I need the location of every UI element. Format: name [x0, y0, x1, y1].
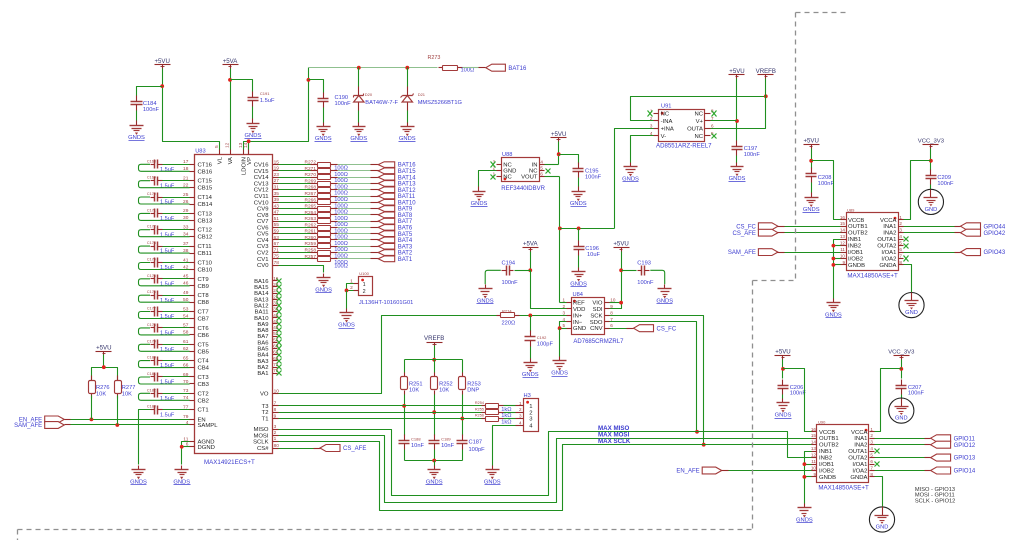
svg-text:R276: R276 — [96, 385, 110, 391]
svg-text:GND: GND — [905, 310, 918, 316]
svg-text:CV11: CV11 — [254, 194, 268, 200]
svg-text:+5VA: +5VA — [523, 241, 539, 248]
svg-text:R267: R267 — [305, 191, 317, 197]
svg-text:BA3: BA3 — [257, 359, 269, 365]
svg-text:13: 13 — [238, 142, 244, 148]
svg-text:-INA: -INA — [661, 119, 673, 125]
svg-text:3: 3 — [650, 123, 653, 128]
svg-text:R262: R262 — [305, 222, 317, 228]
svg-text:78: 78 — [274, 260, 280, 266]
svg-text:MAX14921ECS+T: MAX14921ECS+T — [204, 459, 255, 466]
svg-text:100nF: 100nF — [744, 152, 761, 158]
svg-text:BA1: BA1 — [257, 371, 268, 377]
svg-text:CT1: CT1 — [198, 408, 209, 414]
svg-text:1kΩ: 1kΩ — [501, 407, 511, 413]
svg-text:CT14: CT14 — [198, 195, 213, 201]
svg-text:SDI: SDI — [593, 307, 603, 313]
svg-text:R255: R255 — [475, 407, 484, 411]
svg-text:+5VU: +5VU — [775, 349, 790, 356]
svg-text:T2: T2 — [262, 410, 269, 416]
svg-text:67: 67 — [274, 241, 280, 247]
svg-text:15: 15 — [811, 433, 817, 438]
svg-text:4: 4 — [899, 234, 902, 239]
svg-text:1.5uF: 1.5uF — [160, 232, 175, 238]
svg-text:CB11: CB11 — [198, 251, 212, 257]
svg-text:CT8: CT8 — [198, 293, 210, 299]
svg-text:10K: 10K — [409, 388, 419, 394]
svg-text:INB2: INB2 — [848, 244, 861, 250]
svg-text:GND: GND — [573, 326, 586, 332]
svg-text:AD7685CRMZRL7: AD7685CRMZRL7 — [573, 339, 624, 345]
svg-text:GNDB: GNDB — [819, 475, 836, 481]
svg-text:8: 8 — [610, 310, 613, 315]
svg-text:IN+: IN+ — [573, 313, 583, 319]
svg-text:BAT6: BAT6 — [398, 226, 413, 232]
svg-text:BAT7: BAT7 — [398, 219, 413, 225]
svg-text:BA8: BA8 — [257, 328, 269, 334]
svg-text:+5VU: +5VU — [96, 345, 111, 352]
svg-text:BA7: BA7 — [257, 334, 268, 340]
svg-text:3: 3 — [562, 310, 565, 315]
svg-text:CB14: CB14 — [198, 202, 213, 208]
svg-text:U83: U83 — [195, 149, 205, 155]
svg-text:VCCA: VCCA — [880, 218, 896, 224]
svg-text:CS#: CS# — [257, 446, 269, 452]
svg-text:1: 1 — [870, 427, 873, 432]
svg-text:I/OB2: I/OB2 — [819, 469, 834, 475]
svg-text:1.5uF: 1.5uF — [160, 183, 175, 189]
svg-text:1.5uF: 1.5uF — [160, 216, 175, 222]
svg-text:7: 7 — [274, 401, 277, 407]
svg-text:BAT4: BAT4 — [398, 238, 413, 244]
svg-text:MAX14850ASE+T: MAX14850ASE+T — [818, 484, 869, 491]
svg-text:GPIO14: GPIO14 — [954, 469, 976, 475]
svg-text:GNDB: GNDB — [848, 263, 865, 269]
svg-text:51: 51 — [274, 216, 280, 222]
svg-text:R252: R252 — [439, 381, 453, 387]
svg-text:U88: U88 — [502, 152, 512, 158]
svg-text:1: 1 — [529, 404, 532, 410]
svg-text:23: 23 — [274, 172, 280, 178]
svg-text:CV5: CV5 — [257, 232, 269, 238]
svg-text:BAT15: BAT15 — [398, 169, 417, 175]
svg-text:1.5uF: 1.5uF — [260, 98, 275, 104]
svg-text:BAT16: BAT16 — [508, 66, 527, 72]
svg-text:CT12: CT12 — [198, 228, 212, 234]
svg-text:GNDA: GNDA — [879, 263, 896, 269]
svg-text:10K: 10K — [96, 391, 106, 397]
svg-text:BAT11: BAT11 — [398, 194, 416, 200]
svg-text:C187: C187 — [469, 439, 483, 445]
svg-text:VCCA: VCCA — [851, 430, 867, 436]
svg-text:V+: V+ — [696, 119, 704, 125]
svg-text:R270: R270 — [305, 172, 317, 178]
svg-text:OUTB1: OUTB1 — [848, 224, 868, 230]
svg-text:100nF: 100nF — [585, 175, 602, 181]
svg-text:C172: C172 — [147, 225, 156, 229]
svg-text:R254: R254 — [475, 401, 484, 405]
svg-text:GPIO12: GPIO12 — [954, 443, 976, 449]
svg-text:5: 5 — [540, 166, 543, 171]
svg-text:100nF: 100nF — [335, 101, 352, 107]
svg-text:GPIO43: GPIO43 — [984, 250, 1006, 256]
svg-text:VREFB: VREFB — [424, 335, 444, 342]
svg-text:CT6: CT6 — [198, 326, 210, 332]
svg-text:GND: GND — [876, 524, 889, 530]
svg-text:13: 13 — [811, 446, 817, 451]
svg-text:100nF: 100nF — [637, 280, 654, 286]
svg-text:4: 4 — [870, 446, 873, 451]
svg-text:BAT14: BAT14 — [398, 175, 417, 181]
svg-text:T3: T3 — [262, 404, 270, 410]
svg-text:MISO: MISO — [253, 427, 268, 433]
svg-text:19: 19 — [274, 166, 280, 172]
svg-text:5: 5 — [870, 453, 873, 458]
svg-text:1: 1 — [519, 401, 522, 406]
svg-text:U89: U89 — [847, 208, 855, 213]
svg-text:12: 12 — [840, 241, 846, 246]
svg-text:I/OA1: I/OA1 — [852, 462, 867, 468]
svg-text:R266: R266 — [305, 197, 317, 203]
svg-text:10: 10 — [840, 254, 846, 259]
svg-text:VL: VL — [218, 156, 224, 164]
svg-text:BA16: BA16 — [254, 279, 269, 285]
svg-text:CV6: CV6 — [257, 225, 269, 231]
svg-text:EN_AFE: EN_AFE — [676, 469, 699, 475]
svg-text:CB16: CB16 — [198, 169, 213, 175]
svg-text:1: 1 — [899, 215, 902, 220]
svg-text:BAT12: BAT12 — [398, 188, 417, 194]
svg-text:12: 12 — [224, 142, 230, 148]
svg-text:I/OB1: I/OB1 — [848, 250, 863, 256]
svg-text:16: 16 — [811, 427, 817, 432]
svg-text:CB8: CB8 — [198, 300, 210, 306]
svg-text:GNDA: GNDA — [850, 475, 867, 481]
svg-text:SCLK - GPIO12: SCLK - GPIO12 — [915, 498, 955, 504]
svg-text:16: 16 — [840, 215, 846, 220]
svg-text:R274: R274 — [502, 308, 512, 313]
svg-text:VCC_3V3: VCC_3V3 — [888, 350, 915, 356]
svg-text:IN−: IN− — [573, 320, 583, 326]
svg-text:1.5uF: 1.5uF — [160, 249, 175, 255]
svg-text:GPIO11: GPIO11 — [954, 436, 976, 442]
svg-text:GNDS: GNDS — [775, 413, 792, 419]
svg-text:100pF: 100pF — [537, 341, 554, 347]
svg-text:REF3440IDBVR: REF3440IDBVR — [501, 186, 545, 192]
svg-text:14: 14 — [811, 440, 817, 445]
svg-text:OUTA1: OUTA1 — [877, 237, 896, 243]
svg-text:BA4: BA4 — [257, 353, 269, 359]
svg-text:39: 39 — [274, 197, 280, 203]
svg-text:BA5: BA5 — [257, 347, 269, 353]
svg-text:6: 6 — [899, 247, 902, 252]
svg-text:VDD: VDD — [573, 307, 585, 313]
svg-text:35: 35 — [274, 191, 280, 197]
svg-text:U100: U100 — [359, 271, 369, 276]
svg-text:R273: R273 — [428, 55, 441, 61]
svg-text:R272: R272 — [305, 160, 317, 166]
svg-text:BAT1: BAT1 — [398, 257, 413, 263]
svg-text:T1: T1 — [262, 417, 269, 423]
svg-text:71: 71 — [274, 247, 280, 253]
svg-text:CT10: CT10 — [198, 261, 213, 267]
svg-text:CNV: CNV — [590, 326, 603, 332]
svg-text:9: 9 — [813, 472, 816, 477]
svg-text:CV0: CV0 — [257, 263, 269, 269]
svg-text:BAT5: BAT5 — [398, 232, 413, 238]
svg-text:BAT13: BAT13 — [398, 182, 417, 188]
svg-text:OUTA2: OUTA2 — [877, 244, 896, 250]
svg-text:6: 6 — [870, 459, 873, 464]
svg-text:75: 75 — [274, 254, 280, 260]
svg-text:BA13: BA13 — [254, 297, 269, 303]
svg-text:CB9: CB9 — [198, 284, 209, 290]
svg-text:CT3: CT3 — [198, 375, 210, 381]
svg-text:1: 1 — [363, 282, 366, 288]
svg-text:R265: R265 — [305, 204, 317, 210]
svg-text:CT13: CT13 — [198, 211, 213, 217]
svg-text:NC: NC — [694, 134, 703, 140]
svg-text:R264: R264 — [305, 210, 317, 216]
svg-text:27: 27 — [274, 178, 280, 184]
svg-text:C191: C191 — [260, 91, 270, 96]
svg-text:100nF: 100nF — [143, 107, 160, 113]
svg-text:C168: C168 — [147, 159, 156, 163]
svg-text:100Ω: 100Ω — [334, 191, 348, 197]
svg-text:10: 10 — [274, 388, 280, 394]
svg-text:4: 4 — [519, 420, 522, 425]
svg-text:CB6: CB6 — [198, 333, 210, 339]
svg-text:1.5uF: 1.5uF — [160, 331, 175, 337]
svg-text:BA12: BA12 — [254, 303, 268, 309]
svg-text:SDO: SDO — [590, 320, 603, 326]
svg-text:CT4: CT4 — [198, 359, 210, 365]
svg-text:1.5uF: 1.5uF — [160, 412, 175, 418]
svg-text:CB15: CB15 — [198, 186, 213, 192]
svg-text:R258: R258 — [305, 248, 317, 254]
svg-text:10K: 10K — [122, 391, 132, 397]
svg-text:8: 8 — [870, 472, 873, 477]
svg-text:NC: NC — [503, 163, 512, 169]
svg-text:10: 10 — [610, 298, 616, 303]
svg-text:CB4: CB4 — [198, 366, 210, 372]
svg-text:CV4: CV4 — [257, 238, 269, 244]
svg-text:3: 3 — [274, 424, 277, 430]
svg-text:CB10: CB10 — [198, 268, 213, 274]
svg-text:1.5uF: 1.5uF — [160, 380, 175, 386]
svg-text:C171: C171 — [147, 208, 156, 212]
svg-text:BAT9: BAT9 — [398, 207, 413, 213]
svg-text:13: 13 — [840, 234, 846, 239]
svg-text:1.5uF: 1.5uF — [160, 396, 175, 402]
svg-text:220Ω: 220Ω — [502, 321, 516, 327]
svg-text:C180: C180 — [147, 356, 156, 360]
svg-text:CV13: CV13 — [254, 181, 269, 187]
svg-text:CV9: CV9 — [257, 207, 268, 213]
svg-text:100nF: 100nF — [502, 280, 519, 286]
svg-text:CT9: CT9 — [198, 277, 209, 283]
svg-text:+5VU: +5VU — [803, 138, 818, 145]
svg-text:MAX14850ASE+T: MAX14850ASE+T — [847, 272, 898, 279]
svg-text:VCCB: VCCB — [848, 218, 864, 224]
svg-text:47: 47 — [274, 210, 280, 216]
svg-text:1: 1 — [274, 436, 277, 442]
svg-text:C193: C193 — [637, 260, 651, 266]
svg-text:CS_AFE: CS_AFE — [733, 231, 756, 237]
svg-text:100pF: 100pF — [469, 447, 486, 453]
svg-text:CV16: CV16 — [254, 163, 269, 169]
svg-text:OUTA2: OUTA2 — [848, 456, 867, 462]
svg-text:C194: C194 — [502, 260, 516, 266]
svg-text:63: 63 — [274, 235, 280, 241]
svg-text:VOUT: VOUT — [521, 175, 538, 181]
svg-text:4: 4 — [540, 160, 543, 165]
svg-text:SAM_AFE: SAM_AFE — [728, 250, 756, 256]
svg-text:INA1: INA1 — [854, 436, 867, 442]
svg-text:11: 11 — [840, 247, 845, 252]
svg-text:2: 2 — [899, 221, 902, 226]
svg-text:9: 9 — [274, 413, 277, 419]
svg-text:OUTA: OUTA — [687, 126, 703, 132]
svg-text:MAX SCLK: MAX SCLK — [598, 438, 631, 445]
svg-text:CT2: CT2 — [198, 391, 209, 397]
svg-text:GPIO44: GPIO44 — [984, 224, 1006, 230]
svg-text:10K: 10K — [439, 388, 449, 394]
svg-text:BA11: BA11 — [255, 310, 269, 316]
svg-text:BAT3: BAT3 — [398, 244, 413, 250]
svg-text:NC: NC — [694, 112, 703, 118]
svg-text:6: 6 — [540, 172, 543, 177]
svg-text:2: 2 — [274, 430, 277, 436]
svg-text:R259: R259 — [305, 241, 317, 247]
svg-text:OUTB2: OUTB2 — [819, 443, 839, 449]
svg-text:NC: NC — [503, 175, 512, 181]
svg-text:BA6: BA6 — [257, 340, 269, 346]
svg-text:3: 3 — [899, 228, 902, 233]
svg-text:BAT8: BAT8 — [398, 213, 413, 219]
svg-text:MOSI: MOSI — [253, 433, 268, 439]
svg-text:C181: C181 — [147, 372, 156, 376]
svg-text:D20: D20 — [365, 92, 373, 97]
svg-text:2: 2 — [519, 407, 522, 412]
svg-text:VCC_3V3: VCC_3V3 — [918, 139, 945, 145]
svg-text:NC: NC — [661, 112, 670, 118]
svg-text:C169: C169 — [147, 176, 156, 180]
svg-text:INB2: INB2 — [819, 456, 832, 462]
svg-text:3: 3 — [519, 414, 522, 419]
svg-text:GND: GND — [895, 416, 908, 422]
svg-text:1.5uF: 1.5uF — [160, 314, 175, 320]
svg-text:43: 43 — [274, 203, 280, 209]
svg-text:C170: C170 — [147, 192, 156, 196]
svg-text:INB1: INB1 — [848, 237, 861, 243]
svg-text:BA2: BA2 — [257, 365, 268, 371]
svg-text:I/OB1: I/OB1 — [819, 462, 834, 468]
svg-text:R271: R271 — [305, 166, 317, 172]
svg-text:CT11: CT11 — [198, 244, 212, 250]
svg-text:1.5uF: 1.5uF — [160, 265, 175, 271]
svg-text:AD8551ARZ-REEL7: AD8551ARZ-REEL7 — [656, 143, 712, 150]
svg-text:OUTA1: OUTA1 — [848, 449, 867, 455]
svg-text:6: 6 — [711, 123, 714, 128]
svg-text:GNDS: GNDS — [551, 371, 568, 377]
svg-text:55: 55 — [274, 222, 280, 228]
svg-text:CV2: CV2 — [257, 251, 268, 257]
svg-text:BA14: BA14 — [254, 291, 269, 297]
svg-text:1: 1 — [562, 298, 565, 303]
svg-text:C174: C174 — [147, 258, 156, 262]
svg-text:R268: R268 — [305, 185, 317, 191]
svg-text:SCLK: SCLK — [253, 439, 268, 445]
svg-text:CV12: CV12 — [254, 188, 269, 194]
svg-text:100Ω: 100Ω — [334, 216, 348, 222]
svg-text:MMSZ5266BT1G: MMSZ5266BT1G — [418, 100, 462, 106]
svg-text:BAT2: BAT2 — [398, 251, 413, 257]
svg-text:2: 2 — [870, 433, 873, 438]
svg-text:R261: R261 — [305, 229, 317, 235]
svg-text:100Ω: 100Ω — [461, 68, 475, 74]
svg-text:CB7: CB7 — [198, 317, 209, 323]
svg-text:VO: VO — [260, 392, 269, 398]
svg-text:CV15: CV15 — [254, 169, 269, 175]
svg-text:1.5uF: 1.5uF — [160, 363, 175, 369]
svg-text:I/OB2: I/OB2 — [848, 257, 863, 263]
svg-text:REF: REF — [573, 301, 585, 307]
svg-text:6: 6 — [610, 323, 613, 328]
svg-text:D21: D21 — [418, 92, 426, 97]
svg-text:100nF: 100nF — [937, 181, 954, 187]
svg-text:C173: C173 — [147, 241, 156, 245]
svg-text:25: 25 — [183, 192, 189, 198]
svg-text:CV3: CV3 — [257, 244, 269, 250]
svg-text:+INA: +INA — [661, 126, 674, 132]
svg-text:5: 5 — [899, 241, 902, 246]
svg-text:31: 31 — [274, 185, 280, 191]
svg-text:CS_FC: CS_FC — [736, 224, 756, 230]
svg-text:C179: C179 — [147, 339, 156, 343]
svg-text:CT15: CT15 — [198, 179, 213, 185]
svg-text:GND: GND — [925, 207, 938, 213]
svg-text:CT7: CT7 — [198, 310, 209, 316]
svg-text:11: 11 — [811, 459, 816, 464]
svg-text:JL136HT-101601G01: JL136HT-101601G01 — [359, 300, 413, 306]
svg-text:VCCB: VCCB — [819, 430, 835, 436]
svg-text:80: 80 — [274, 443, 280, 449]
svg-text:GPIO13: GPIO13 — [954, 456, 976, 462]
svg-text:VA: VA — [228, 157, 234, 164]
svg-text:DGND: DGND — [198, 445, 215, 451]
svg-text:U84: U84 — [573, 292, 583, 298]
svg-text:DNP: DNP — [467, 388, 479, 394]
svg-text:I/OA1: I/OA1 — [881, 250, 896, 256]
svg-text:14: 14 — [840, 228, 846, 233]
svg-text:1.5uF: 1.5uF — [160, 200, 175, 206]
svg-text:CT5: CT5 — [198, 342, 210, 348]
svg-text:100nF: 100nF — [818, 181, 835, 187]
svg-text:BA9: BA9 — [257, 322, 268, 328]
svg-text:NC: NC — [529, 169, 538, 175]
svg-text:C176: C176 — [147, 290, 156, 294]
svg-text:C189: C189 — [441, 437, 451, 442]
svg-text:7: 7 — [870, 466, 873, 471]
svg-text:INA2: INA2 — [883, 231, 896, 237]
svg-text:BA15: BA15 — [254, 285, 269, 291]
svg-text:CS_AFE: CS_AFE — [343, 446, 366, 452]
svg-text:GPIO42: GPIO42 — [984, 231, 1006, 237]
svg-text:R257: R257 — [305, 254, 317, 260]
svg-text:9: 9 — [842, 260, 845, 265]
svg-text:3: 3 — [870, 440, 873, 445]
